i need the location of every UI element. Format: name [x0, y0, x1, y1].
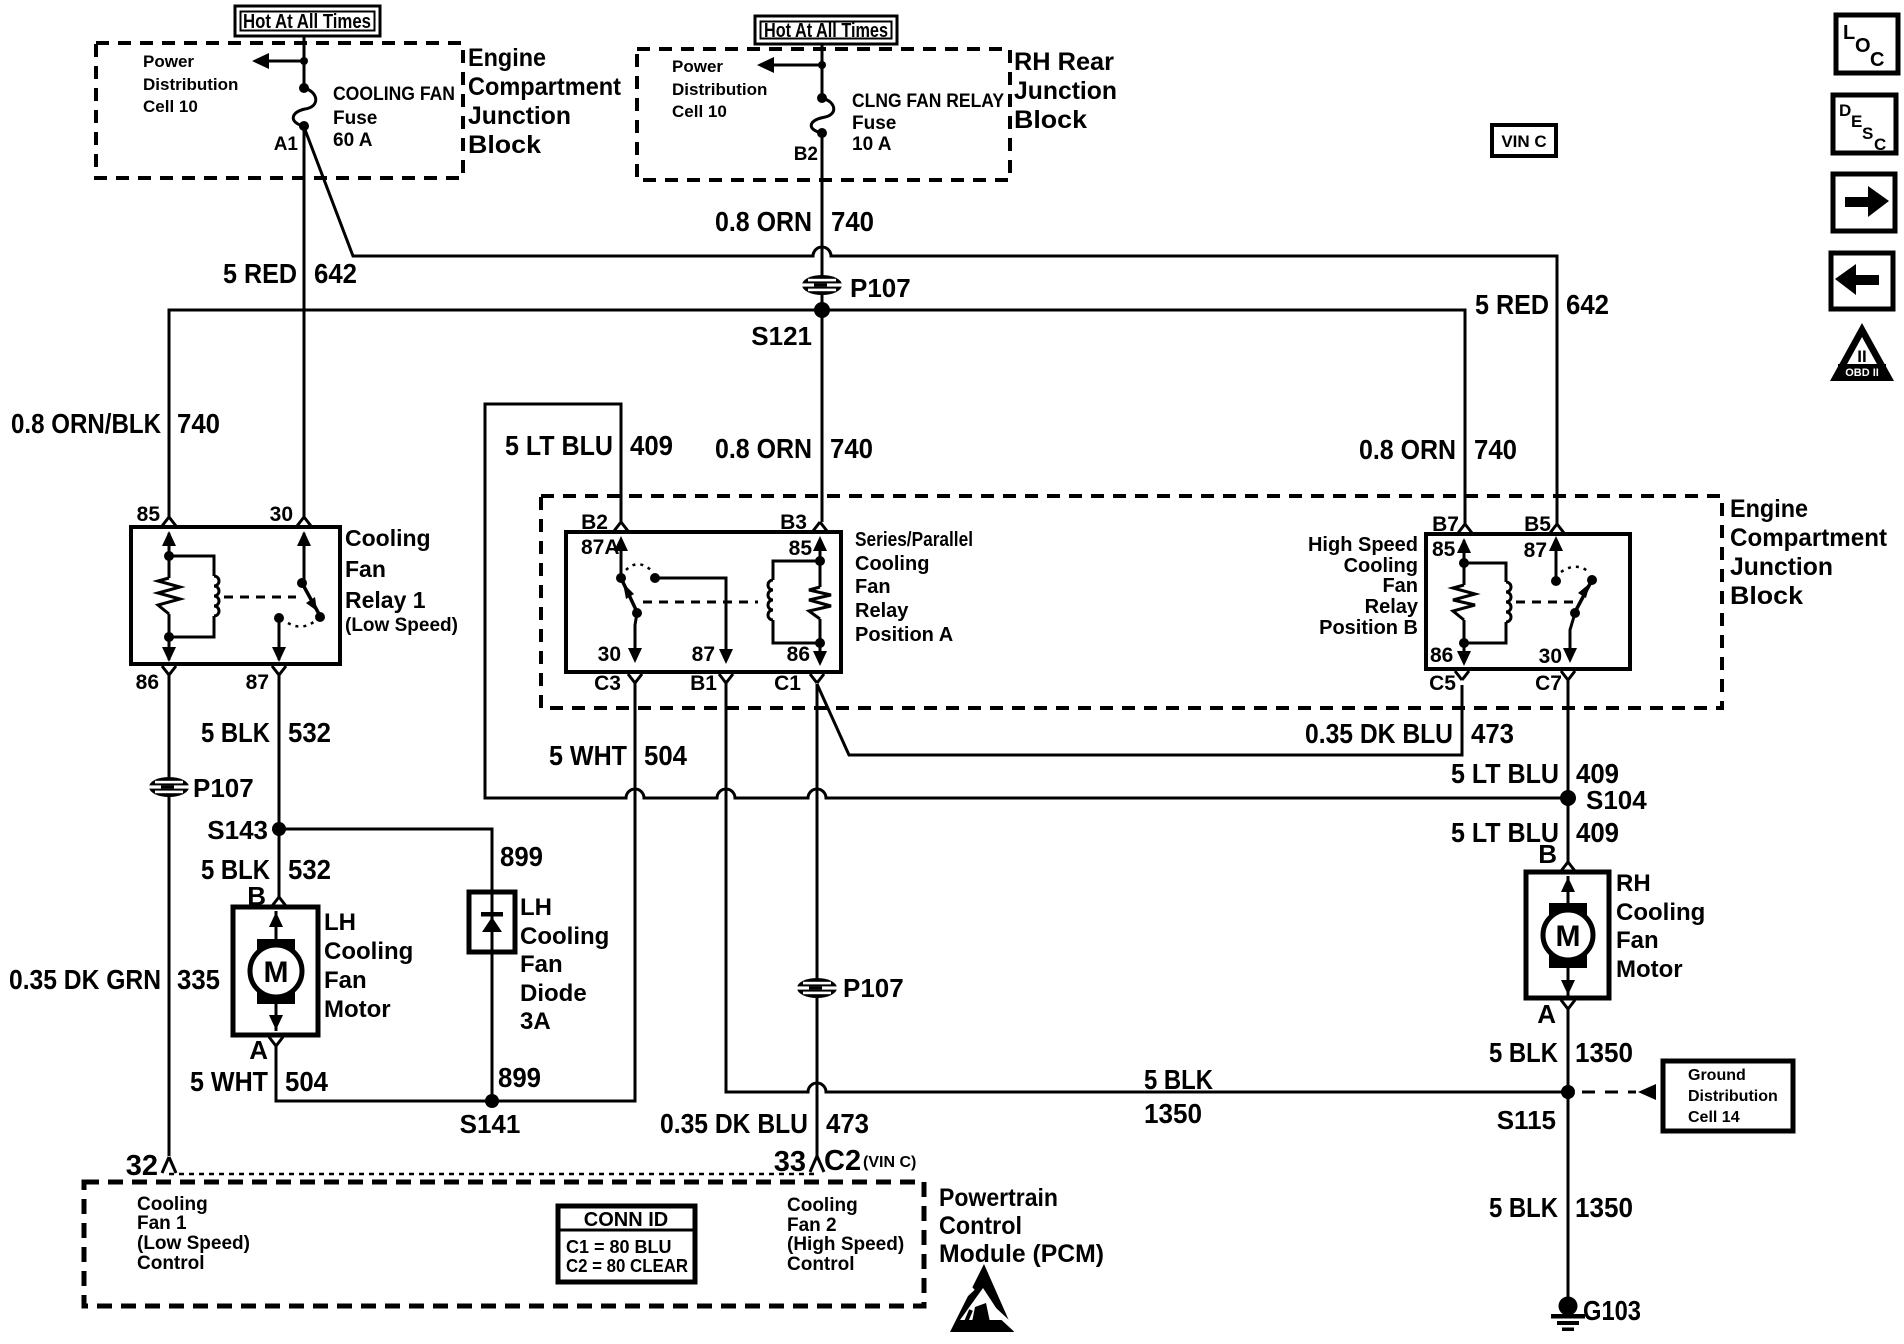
svg-text:High Speed: High Speed: [1308, 534, 1418, 556]
svg-text:Ground: Ground: [1688, 1067, 1746, 1084]
svg-text:0.8 ORN/BLK: 0.8 ORN/BLK: [11, 408, 161, 439]
relay K2 pin B2: [614, 522, 628, 531]
svg-text:5 WHT: 5 WHT: [549, 740, 627, 771]
svg-text:Cell 14: Cell 14: [1688, 1109, 1740, 1126]
svg-text:Fan: Fan: [1382, 575, 1418, 597]
svg-text:30: 30: [1539, 645, 1562, 668]
svg-text:Cooling: Cooling: [345, 525, 431, 551]
wire 0.35 DK GRN 335 from relay1 86 to PCM pin 32: [168, 675, 171, 1156]
svg-text:0.35 DK BLU: 0.35 DK BLU: [660, 1108, 808, 1139]
splice S115: [1561, 1085, 1575, 1099]
svg-text:642: 642: [1566, 289, 1609, 320]
svg-text:Cooling: Cooling: [1616, 899, 1705, 926]
svg-text:Junction: Junction: [1730, 553, 1833, 581]
svg-text:Fuse: Fuse: [852, 113, 896, 134]
svg-text:Block: Block: [468, 131, 541, 159]
svg-text:A: A: [1537, 999, 1556, 1029]
relay K3 High Speed Cooling Fan Relay box: [1426, 534, 1630, 669]
svg-text:87: 87: [246, 671, 269, 694]
motor M1 pin A: [269, 1037, 283, 1046]
inline connector P107 (left): [149, 777, 189, 797]
svg-text:S115: S115: [1497, 1105, 1556, 1135]
svg-text:5 RED: 5 RED: [1475, 289, 1549, 320]
svg-text:740: 740: [830, 433, 873, 464]
svg-text:C: C: [1874, 135, 1886, 154]
svg-text:Fuse: Fuse: [333, 108, 377, 129]
svg-text:B2: B2: [581, 511, 608, 534]
svg-text:Position A: Position A: [855, 624, 953, 646]
dashed box Powertrain Control Module: [84, 1182, 924, 1306]
svg-text:RH: RH: [1616, 870, 1651, 897]
relay K1 pin 87: [272, 666, 286, 675]
svg-text:5 RED: 5 RED: [223, 258, 297, 289]
svg-text:B: B: [1538, 839, 1557, 869]
wire 5 LT BLU 409 from 87A loop to S104 (hops over C3,B1,C1 wires): [485, 404, 1568, 798]
svg-text:532: 532: [288, 854, 331, 885]
icon arrow right: [1833, 174, 1895, 231]
icon OBD II triangle: [1830, 323, 1894, 381]
relay K3 coil rail pin85: [1463, 540, 1466, 563]
relay K2 pin B3: [813, 522, 827, 531]
fuse CLNG FAN RELAY 10 A: [817, 93, 827, 103]
svg-text:5 BLK: 5 BLK: [1489, 1192, 1558, 1223]
wire 899 from S143 to diode: [279, 829, 492, 892]
wire 899 from diode to S141: [491, 952, 494, 1101]
svg-text:473: 473: [1471, 718, 1514, 749]
svg-text:COOLING FAN: COOLING FAN: [333, 84, 455, 105]
svg-text:B1: B1: [690, 672, 717, 695]
svg-text:Hot At All Times: Hot At All Times: [243, 11, 371, 33]
PCM connector dotted line pins 32-33: [169, 1173, 817, 1176]
svg-text:5 LT BLU: 5 LT BLU: [505, 430, 613, 461]
relay K1 actuation dashed link: [224, 596, 296, 599]
svg-text:P107: P107: [850, 273, 911, 303]
arrow to Power Distribution (middle): [770, 64, 822, 67]
motor M2 pin A: [1561, 1000, 1575, 1009]
svg-text:Cooling: Cooling: [787, 1195, 858, 1216]
reference box Ground Distribution Cell 14: [1663, 1061, 1793, 1131]
svg-text:409: 409: [1576, 817, 1619, 848]
svg-text:Cell 10: Cell 10: [672, 102, 727, 121]
relay K2 coil rail pin86: [819, 643, 822, 658]
dashed box Engine Compartment Junction Block (relays): [541, 496, 1722, 708]
relay K3 pin B5: [1550, 524, 1564, 533]
svg-text:LH: LH: [324, 909, 356, 936]
svg-text:85: 85: [1432, 538, 1456, 561]
svg-text:S104: S104: [1586, 785, 1647, 815]
relay K3 pin B7: [1458, 524, 1472, 533]
relay K3 blade to pin 30/C7: [1570, 613, 1575, 655]
PCM pin 32: [162, 1157, 176, 1173]
relay K2 coil rail pin85: [819, 540, 822, 561]
svg-text:Cooling: Cooling: [1344, 555, 1418, 577]
svg-text:Relay: Relay: [1365, 596, 1419, 618]
svg-text:0.8 ORN: 0.8 ORN: [1359, 434, 1456, 465]
relay K1 travel arc: [288, 621, 315, 627]
relay K2 switch blade: [621, 578, 637, 612]
dashed box RH Rear Junction Block fuse section: [637, 49, 1010, 180]
svg-text:VIN C: VIN C: [1501, 132, 1546, 151]
svg-text:473: 473: [826, 1108, 869, 1139]
svg-text:Control: Control: [137, 1253, 205, 1274]
svg-text:60 A: 60 A: [333, 130, 373, 151]
relay K1 contact 87: [274, 613, 284, 623]
relay K3 pin C5: [1455, 671, 1469, 680]
svg-text:L: L: [1843, 22, 1855, 44]
svg-text:409: 409: [630, 430, 673, 461]
relay K3 switch blade: [1575, 580, 1592, 612]
svg-text:M: M: [1556, 920, 1581, 953]
arrow to Power Distribution (left): [266, 60, 304, 63]
svg-text:740: 740: [177, 408, 220, 439]
svg-text:(Low Speed): (Low Speed): [137, 1233, 250, 1254]
relay K3 switch pivot: [1587, 575, 1597, 585]
svg-text:A1: A1: [274, 134, 299, 155]
svg-text:Compartment: Compartment: [1730, 524, 1888, 552]
svg-text:Series/Parallel: Series/Parallel: [855, 529, 973, 551]
svg-text:32: 32: [126, 1150, 158, 1182]
svg-text:D: D: [1839, 101, 1851, 120]
svg-text:Fan: Fan: [324, 967, 367, 994]
svg-text:5 WHT: 5 WHT: [190, 1066, 268, 1097]
svg-text:Motor: Motor: [324, 996, 391, 1023]
svg-text:0.35 DK BLU: 0.35 DK BLU: [1305, 718, 1453, 749]
svg-text:C7: C7: [1535, 672, 1562, 695]
svg-text:C2 = 80 CLEAR: C2 = 80 CLEAR: [566, 1256, 688, 1276]
relay K2 switch common to pin 87/B1: [650, 573, 660, 583]
svg-text:642: 642: [314, 258, 357, 289]
motor M2 pin B: [1561, 862, 1575, 871]
relay K3 pin C7: [1561, 671, 1575, 680]
diode CR1 box: [469, 892, 515, 952]
svg-text:0.8 ORN: 0.8 ORN: [715, 206, 812, 237]
svg-text:5 BLK: 5 BLK: [1144, 1064, 1213, 1095]
motor M1 symbol: [275, 911, 278, 1031]
svg-text:30: 30: [270, 503, 293, 526]
splice S121: [814, 302, 830, 318]
inline connector P107 (bottom): [797, 978, 837, 998]
svg-text:335: 335: [177, 964, 220, 995]
svg-text:899: 899: [500, 841, 543, 872]
relay K2 actuation dashed link: [643, 601, 758, 604]
svg-text:CLNG FAN RELAY: CLNG FAN RELAY: [852, 91, 1004, 112]
svg-text:Power: Power: [672, 57, 723, 76]
svg-text:Powertrain: Powertrain: [939, 1184, 1058, 1212]
svg-text:Fan: Fan: [855, 576, 891, 598]
svg-text:85: 85: [789, 537, 813, 560]
relay K2 pin C1: [810, 674, 824, 683]
VIN C tag: [1492, 125, 1556, 156]
svg-text:87: 87: [692, 643, 715, 666]
svg-text:899: 899: [498, 1062, 541, 1093]
motor M1 pin B: [272, 897, 286, 906]
svg-text:Position B: Position B: [1319, 617, 1418, 639]
svg-text:O: O: [1855, 35, 1871, 57]
relay K2 contact 87A: [620, 540, 623, 578]
wire 0.35 DK BLU 473 C1 diagonal to C5: [817, 684, 1462, 755]
power feed label box (Hot At All Times, left): [235, 6, 380, 36]
svg-text:85: 85: [137, 503, 161, 526]
svg-text:Distribution: Distribution: [1688, 1088, 1778, 1105]
svg-text:P107: P107: [843, 973, 904, 1003]
svg-text:30: 30: [598, 643, 621, 666]
svg-text:C2: C2: [824, 1145, 861, 1177]
dashed wire to Ground Distribution: [1582, 1091, 1636, 1094]
svg-text:Cooling: Cooling: [520, 923, 609, 950]
svg-text:(Low Speed): (Low Speed): [345, 615, 458, 636]
svg-text:740: 740: [831, 206, 874, 237]
svg-text:5 BLK: 5 BLK: [201, 717, 270, 748]
svg-text:Compartment: Compartment: [468, 73, 622, 101]
splice S143: [272, 822, 286, 836]
relay K3 actuation dashed link: [1516, 601, 1578, 604]
svg-text:409: 409: [1576, 758, 1619, 789]
svg-text:504: 504: [285, 1066, 328, 1097]
svg-text:86: 86: [787, 643, 810, 666]
svg-text:Module (PCM): Module (PCM): [939, 1240, 1104, 1268]
relay K2 coil: [773, 561, 820, 643]
svg-text:Junction: Junction: [1014, 77, 1117, 105]
motor M1 LH Cooling Fan Motor box: [233, 907, 318, 1035]
svg-text:86: 86: [1430, 644, 1453, 667]
svg-text:Control: Control: [939, 1212, 1022, 1240]
svg-text:Control: Control: [787, 1254, 855, 1275]
wire 5 BLK 532 from relay1 87 to LH motor B: [278, 675, 281, 897]
svg-text:86: 86: [136, 671, 159, 694]
svg-text:Relay: Relay: [855, 600, 909, 622]
wire from hot feed to fuse (left): [303, 36, 306, 88]
svg-text:504: 504: [644, 740, 687, 771]
svg-text:1350: 1350: [1575, 1192, 1633, 1223]
svg-text:B3: B3: [780, 511, 807, 534]
svg-text:A: A: [249, 1035, 268, 1065]
svg-text:Hot At All Times: Hot At All Times: [764, 20, 888, 42]
wire 0.8 ORN 740 from fuse B2 down to B3: [821, 133, 824, 522]
relay K1 switch blade: [302, 583, 319, 614]
relay K2 travel arc: [626, 564, 652, 571]
svg-text:0.35 DK GRN: 0.35 DK GRN: [9, 964, 161, 995]
svg-text:Cell 10: Cell 10: [143, 97, 198, 116]
svg-text:87A: 87A: [581, 536, 620, 559]
svg-text:C3: C3: [594, 672, 621, 695]
svg-text:S141: S141: [460, 1109, 521, 1139]
svg-text:B7: B7: [1432, 513, 1459, 536]
svg-text:1350: 1350: [1144, 1098, 1202, 1129]
svg-text:RH Rear: RH Rear: [1014, 48, 1114, 76]
svg-text:B2: B2: [794, 144, 818, 165]
relay K2 pin C3: [628, 674, 642, 683]
svg-text:OBD II: OBD II: [1845, 367, 1879, 379]
motor M2 RH Cooling Fan Motor box: [1526, 872, 1609, 998]
relay K1 switch common from pin 30: [303, 533, 306, 583]
relay K2 resistor: [819, 561, 822, 643]
svg-text:E: E: [1851, 112, 1862, 131]
svg-text:Fan 2: Fan 2: [787, 1215, 837, 1236]
wire 0.8 ORN 740 horizontal run S121 to relay1 85 and B7: [169, 310, 1465, 524]
svg-text:Fan 1: Fan 1: [137, 1213, 187, 1234]
wire 5 BLK 1350 RH motor A to ground G103: [1567, 1008, 1570, 1299]
svg-text:10 A: 10 A: [852, 134, 892, 155]
icon LOC: [1836, 15, 1898, 73]
svg-text:(High Speed): (High Speed): [787, 1234, 904, 1255]
dashed box Engine Compartment Junction Block fuse section (left): [96, 43, 463, 178]
svg-text:3A: 3A: [520, 1008, 551, 1035]
relay K3 coil rail pin86: [1463, 643, 1466, 660]
wire 5 LT BLU 409 from C7 through S104 to RH motor B: [1567, 680, 1570, 862]
relay K2 pin B1: [719, 674, 733, 683]
svg-text:LH: LH: [520, 894, 552, 921]
wire 0.35 DK BLU 473 C1 down to PCM pin 33: [816, 684, 819, 1156]
svg-text:Block: Block: [1014, 106, 1087, 134]
svg-text:Diode: Diode: [520, 980, 587, 1007]
svg-text:C1 = 80 BLU: C1 = 80 BLU: [566, 1237, 672, 1257]
relay K1 coil rail arrows: [168, 533, 171, 660]
relay K1 pin 85: [162, 517, 176, 526]
svg-text:S143: S143: [207, 815, 268, 845]
wire from hot feed to fuse (middle): [821, 44, 824, 98]
svg-text:532: 532: [288, 717, 331, 748]
diode CR1 symbol: [491, 892, 494, 952]
wire 5 WHT 504 from C3 to S141: [492, 683, 635, 1101]
wire 5 WHT 504 from LH motor A to S141: [276, 1046, 492, 1101]
power feed label box (Hot At All Times, middle): [755, 16, 897, 44]
relay K1 pin 30: [297, 517, 311, 526]
svg-text:5 LT BLU: 5 LT BLU: [1451, 758, 1559, 789]
relay K2 blade to pin 30/C3: [635, 613, 637, 655]
svg-text:CONN ID: CONN ID: [584, 1209, 668, 1231]
svg-text:Cooling: Cooling: [324, 938, 413, 965]
svg-text:Fan: Fan: [345, 556, 386, 582]
icon DESC: [1833, 95, 1896, 153]
svg-text:Junction: Junction: [468, 102, 571, 130]
svg-text:740: 740: [1474, 434, 1517, 465]
PCM pin 33 C2: [810, 1156, 824, 1172]
relay K3 coil: [1464, 563, 1506, 643]
svg-text:C1: C1: [774, 672, 801, 695]
fuse COOLING FAN 60 A: [299, 83, 309, 93]
svg-text:C5: C5: [1429, 672, 1456, 695]
svg-text:M: M: [264, 956, 289, 989]
relay K1 pin 86: [162, 666, 176, 675]
inline connector P107 (top): [802, 275, 842, 295]
svg-text:5 BLK: 5 BLK: [1489, 1037, 1558, 1068]
svg-text:Engine: Engine: [1730, 495, 1808, 523]
wire 5 BLK 1350 from B1 to S115 (hops over DK BLU wire): [726, 683, 1568, 1092]
svg-text:Fan: Fan: [520, 951, 563, 978]
motor M2 symbol: [1567, 876, 1570, 996]
svg-text:Power: Power: [143, 52, 194, 71]
svg-text:S121: S121: [751, 321, 812, 351]
relay K1 Cooling Fan Relay 1 box: [131, 527, 340, 664]
svg-text:Cooling: Cooling: [855, 553, 929, 575]
svg-text:G103: G103: [1583, 1295, 1641, 1326]
svg-text:87: 87: [1524, 539, 1547, 562]
svg-text:Block: Block: [1730, 582, 1803, 610]
ground G103 symbol: [1559, 1297, 1578, 1316]
svg-text:B5: B5: [1524, 513, 1551, 536]
svg-text:Fan: Fan: [1616, 927, 1659, 954]
svg-text:Motor: Motor: [1616, 956, 1683, 983]
relay K3 contact 87: [1555, 540, 1558, 581]
ESD sensitive device symbol (PCM): [950, 1264, 1014, 1332]
relay K2 Series/Parallel Cooling Fan Relay box: [566, 532, 841, 672]
wire 5 RED 642 from fuse A1 to relay 1 pin 30: [303, 126, 306, 517]
svg-text:(VIN C): (VIN C): [863, 1154, 916, 1171]
svg-text:Distribution: Distribution: [672, 80, 767, 99]
svg-text:Engine: Engine: [468, 44, 546, 72]
relay K1 coil: [169, 556, 214, 637]
icon arrow left: [1831, 253, 1893, 309]
svg-text:Distribution: Distribution: [143, 75, 238, 94]
relay K3 travel arc: [1561, 567, 1590, 573]
relay K1 resistor: [168, 556, 171, 637]
relay K3 resistor: [1463, 563, 1466, 643]
svg-text:P107: P107: [193, 773, 254, 803]
svg-text:Cooling: Cooling: [137, 1194, 208, 1215]
svg-text:Relay 1: Relay 1: [345, 587, 426, 613]
wire 5 RED 642 branch to B5 (diagonal + top run, hops over 0.8 ORN wire): [304, 127, 1557, 524]
svg-text:II: II: [1857, 347, 1866, 366]
svg-text:0.8 ORN: 0.8 ORN: [715, 433, 812, 464]
svg-text:S: S: [1862, 124, 1873, 143]
svg-text:1350: 1350: [1575, 1037, 1633, 1068]
splice S141: [485, 1094, 499, 1108]
svg-text:C: C: [1870, 49, 1884, 71]
splice S104: [1560, 790, 1576, 806]
svg-text:33: 33: [774, 1146, 806, 1178]
table CONN ID: [558, 1206, 695, 1282]
